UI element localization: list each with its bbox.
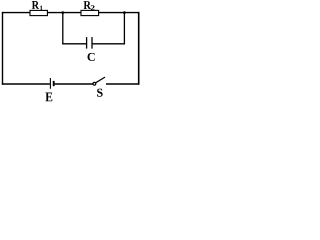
switch S terminal circle xyxy=(93,82,96,85)
label C xyxy=(87,53,94,61)
wire left of outer loop xyxy=(2,12,4,85)
switch S arm (open blade) xyxy=(96,77,105,83)
label R2 subscript 2 xyxy=(91,5,95,10)
label R2 letter R xyxy=(84,1,91,9)
label S xyxy=(97,89,103,97)
wire capacitor branch left vertical xyxy=(62,13,64,45)
wire bottom-right segment (after switch) xyxy=(106,83,139,85)
label R1 subscript 1 xyxy=(40,6,43,11)
capacitor C right plate xyxy=(91,37,93,49)
resistor R2 xyxy=(81,10,99,15)
node junction dot right (capacitor branch to top wire) xyxy=(123,11,126,14)
label R1 letter R xyxy=(32,1,39,9)
node junction dot left (capacitor branch to top wire) xyxy=(61,11,64,14)
wire top of outer loop xyxy=(2,12,139,14)
battery E long thin plate xyxy=(49,78,51,89)
label E xyxy=(45,93,52,102)
wire capacitor branch bottom-right horizontal xyxy=(92,43,125,45)
wire bottom-left segment (to battery) xyxy=(2,83,50,85)
battery E short thick plate xyxy=(53,81,55,86)
resistor R1 xyxy=(30,10,47,15)
wire right of outer loop xyxy=(138,12,140,85)
wire capacitor branch bottom-left horizontal xyxy=(62,43,86,45)
wire bottom segment between battery and switch xyxy=(55,83,93,85)
wire capacitor branch right vertical xyxy=(123,13,125,45)
capacitor C left plate xyxy=(86,37,88,49)
